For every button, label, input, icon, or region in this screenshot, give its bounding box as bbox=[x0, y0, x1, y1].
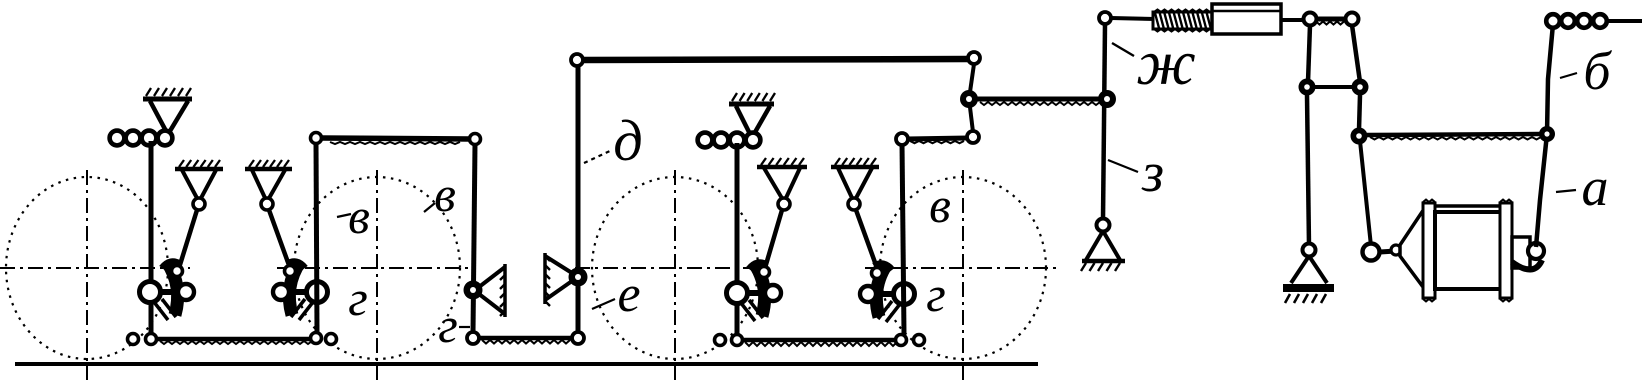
chain links at top of lever L1 bbox=[110, 131, 173, 146]
pin lever L1 bottom bbox=[146, 334, 157, 345]
lever b (from chain to cylinder) bbox=[1536, 24, 1553, 247]
label z bbox=[1141, 142, 1164, 204]
pin V3 bottom bbox=[896, 335, 907, 346]
fixed pivot P2 (hatched bracket) bbox=[729, 93, 775, 137]
wheel 3 (dashed circle with centerlines) bbox=[575, 170, 770, 380]
short link to junction A bbox=[1359, 95, 1360, 130]
pin top of lever Zh bbox=[1099, 12, 1111, 24]
fixed pivot for lever V2 (wall bracket) bbox=[464, 264, 506, 317]
top tie rod (V1 to V2) bbox=[321, 138, 470, 144]
short hatched rod bbox=[1316, 19, 1346, 25]
rod right of turnbuckle bbox=[1281, 18, 1305, 22]
svg-text:в: в bbox=[929, 177, 951, 233]
label g3 bbox=[926, 266, 946, 322]
vertical lever Z bbox=[1307, 95, 1309, 246]
pin right end of rod D bbox=[968, 52, 980, 64]
label d bbox=[613, 108, 642, 173]
label v2 bbox=[434, 166, 456, 222]
leader for label d bbox=[584, 150, 612, 163]
fixed pivot P1 (hatched bracket for lever chain) bbox=[143, 88, 192, 136]
leader for label e bbox=[592, 299, 615, 309]
main vertical lever L2 bbox=[735, 143, 740, 340]
hanger link H2 to brake shoe 2 bbox=[269, 210, 290, 268]
pin L2 bottom bbox=[732, 335, 743, 346]
cylinder push lever bbox=[1360, 141, 1371, 246]
junction pin Zh-left bbox=[960, 90, 978, 108]
pin top of V1 bbox=[311, 133, 322, 144]
chain links at top of lever L2 bbox=[698, 133, 761, 148]
junction pin right bbox=[1352, 79, 1369, 96]
bottom tie rod 2 (V2 to lever E) bbox=[480, 338, 572, 344]
vertical lever Zh bbox=[1103, 24, 1105, 220]
turnbuckle threaded rod (hatched) bbox=[1153, 10, 1212, 32]
horizontal rod to lever Zh bbox=[977, 99, 1100, 105]
pin bottom of lever Z bbox=[1303, 244, 1316, 257]
vertical lever E bbox=[576, 65, 581, 332]
pin top of V2 bbox=[470, 134, 481, 145]
turnbuckle body bbox=[1212, 4, 1281, 34]
pin at left of rod 1 bbox=[128, 334, 139, 345]
link between junctions bbox=[1315, 85, 1352, 89]
label b bbox=[1583, 41, 1612, 101]
label v1 bbox=[348, 188, 370, 244]
brake shoe 2 assembly bbox=[273, 262, 328, 320]
chain links at top right bbox=[1546, 14, 1607, 28]
leader for label z bbox=[1108, 160, 1138, 172]
junction pin on lever b bbox=[1539, 126, 1555, 142]
brake cylinder bbox=[1380, 200, 1542, 302]
pin right of rod 3 bbox=[914, 335, 925, 346]
svg-text:а: а bbox=[1582, 157, 1609, 217]
svg-text:ж: ж bbox=[1136, 27, 1196, 98]
svg-text:в: в bbox=[434, 166, 456, 222]
pin at right of rod 1 bbox=[326, 334, 337, 345]
brake shoe 3 assembly bbox=[727, 263, 782, 321]
leader for label a bbox=[1556, 190, 1576, 192]
label e bbox=[617, 266, 640, 323]
hanger pivot H4 bbox=[831, 158, 879, 210]
leader for label v1 bbox=[337, 214, 351, 217]
pin top of V3 bbox=[896, 133, 908, 145]
svg-text:г: г bbox=[348, 270, 368, 326]
bottom tie rod 3 (L2 to lever V3) bbox=[743, 340, 897, 346]
brake shoe 1 assembly bbox=[140, 262, 195, 320]
label v3 bbox=[929, 177, 951, 233]
label a bbox=[1582, 157, 1609, 217]
rod from lever Zh to turnbuckle bbox=[1111, 18, 1155, 19]
pin left end of rod D bbox=[571, 54, 583, 66]
leader for label b bbox=[1560, 73, 1577, 78]
vertical lever V1 bbox=[316, 143, 317, 333]
horizontal rod B (to lever b) bbox=[1367, 134, 1541, 140]
junction pin on lever Zh bbox=[1098, 90, 1116, 108]
hanger pivot H2 bbox=[245, 160, 292, 210]
bottom tie rod 1 (lever L1 to lever V1) bbox=[157, 339, 313, 344]
pin bottom of V2 bbox=[467, 332, 479, 344]
top rod V3 to link bbox=[907, 138, 968, 143]
leader for label v2 bbox=[424, 203, 435, 212]
svg-text:г: г bbox=[926, 266, 946, 322]
pin at link bottom bbox=[967, 131, 979, 143]
pin at cylinder rod end bbox=[1363, 244, 1380, 261]
svg-text:д: д bbox=[613, 108, 642, 173]
vertical link (rod D to balance point) bbox=[969, 64, 974, 132]
pin bottom of lever Zh bbox=[1097, 219, 1110, 232]
rail base line bbox=[15, 362, 1038, 366]
wheel 1 (dashed circle with centerlines) bbox=[0, 170, 190, 380]
junction pin left bbox=[1299, 79, 1316, 96]
vertical lever V2 bbox=[473, 144, 475, 333]
svg-text:г: г bbox=[438, 297, 458, 353]
right suspension link bbox=[1352, 25, 1360, 82]
ground support under lever Zh bbox=[1081, 231, 1125, 271]
wheel 2 (dashed circle with centerlines) bbox=[277, 170, 470, 380]
label g2 bbox=[438, 297, 458, 353]
long connecting rod D bbox=[583, 59, 969, 60]
svg-text:в: в bbox=[348, 188, 370, 244]
pin left of rod 3 bbox=[715, 335, 726, 346]
pin at cylinder rear clevis bbox=[1528, 243, 1544, 259]
pin lever V1 bottom bbox=[311, 333, 322, 344]
vertical lever V3 bbox=[902, 143, 904, 334]
brake shoe 4 assembly bbox=[860, 264, 915, 322]
junction pin A bbox=[1351, 128, 1368, 145]
pin left of short rod bbox=[1304, 13, 1317, 26]
hanger link H3 to brake shoe 3 bbox=[765, 210, 782, 268]
label zh bbox=[1136, 27, 1196, 98]
rod to right edge bbox=[1606, 19, 1642, 23]
hanger pivot H1 bbox=[175, 160, 223, 210]
svg-text:е: е bbox=[617, 266, 640, 323]
hanger link H1 to brake shoe 1 bbox=[179, 210, 197, 268]
pin right of short rod bbox=[1346, 13, 1359, 26]
hanger pivot H3 bbox=[757, 158, 807, 210]
hanger link H4 to brake shoe 4 bbox=[856, 210, 877, 268]
main vertical lever L1 bbox=[149, 141, 154, 339]
fixed pivot for lever E (wall bracket) bbox=[545, 253, 588, 306]
svg-text:з: з bbox=[1141, 142, 1164, 204]
pin bottom of lever E bbox=[572, 332, 584, 344]
label g1 bbox=[348, 270, 368, 326]
wheel 4 (dashed circle with centerlines) bbox=[865, 170, 1060, 380]
leader for label g2 bbox=[459, 326, 470, 328]
svg-text:б: б bbox=[1583, 41, 1612, 101]
ground support under lever Z bbox=[1283, 256, 1334, 303]
left suspension link bbox=[1308, 25, 1310, 82]
leader for label zh bbox=[1112, 43, 1134, 56]
